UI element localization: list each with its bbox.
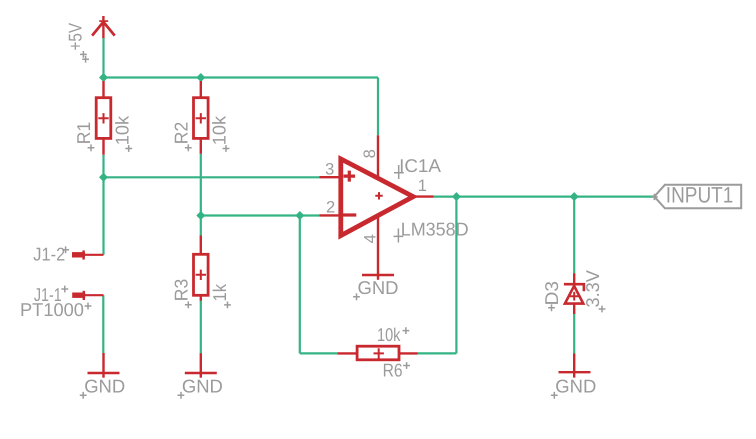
op-amp IC1A: [319, 135, 433, 275]
gnd symbol under R3: [185, 353, 217, 378]
wire pin3 row: [104, 176, 320, 178]
svg-text:10k: 10k: [209, 115, 230, 145]
svg-text:R6: R6: [383, 360, 403, 381]
wire top rail: [104, 76, 379, 78]
junction node at R2 top: [196, 73, 205, 82]
svg-text:INPUT1: INPUT1: [666, 182, 734, 207]
svg-text:10k: 10k: [111, 115, 132, 145]
wire R1 bottom: [102, 155, 104, 178]
svg-text:3.3V: 3.3V: [582, 269, 603, 307]
svg-text:GND: GND: [358, 277, 399, 298]
resistor R6: [338, 346, 418, 360]
svg-text:R2: R2: [170, 122, 191, 144]
svg-text:J1-2: J1-2: [33, 244, 65, 265]
connector pin J1-1: [72, 291, 103, 300]
junction node at feedback left: [295, 211, 304, 220]
gnd symbol under op-amp pin4: [362, 275, 394, 280]
wire +5V stem: [102, 38, 104, 78]
svg-text:GND: GND: [555, 376, 596, 397]
wire output row: [433, 196, 654, 198]
junction node at feedback right: [452, 192, 461, 201]
wire feedback left: [300, 216, 338, 354]
svg-text:PT1000: PT1000: [20, 299, 84, 320]
gnd symbol under J1-1: [88, 353, 120, 378]
svg-text:4: 4: [362, 234, 380, 243]
wire feedback right: [417, 197, 456, 354]
svg-text:8: 8: [361, 149, 379, 158]
wire pin2 row: [201, 214, 319, 216]
wire left drop to J1-2: [102, 177, 104, 255]
wire R3 bottom to GND: [200, 301, 202, 354]
svg-text:GND: GND: [182, 376, 223, 397]
wire D3 bottom: [573, 314, 575, 354]
wire D3 top: [573, 197, 575, 274]
gnd symbol under D3: [559, 354, 591, 378]
svg-text:R1: R1: [73, 122, 94, 144]
svg-text:GND: GND: [84, 376, 125, 397]
svg-text:D3: D3: [541, 281, 562, 305]
svg-text:R3: R3: [170, 279, 191, 301]
svg-text:IC1A: IC1A: [399, 155, 442, 176]
svg-text:+5V: +5V: [65, 22, 86, 50]
power symbol +5V: [92, 16, 115, 38]
resistor R1: [96, 81, 111, 155]
svg-text:1k: 1k: [209, 283, 230, 301]
svg-text:10k: 10k: [377, 324, 401, 345]
wire R2 bottom: [200, 154, 202, 216]
wire pin8 drop: [377, 78, 379, 136]
wire J1-1 to GND: [102, 295, 104, 353]
resistor R3: [194, 236, 209, 301]
resistor R2: [194, 81, 209, 154]
svg-text:LM358D: LM358D: [401, 219, 469, 240]
junction node at +5V/R1: [99, 73, 108, 82]
zener diode D3: [564, 273, 584, 314]
svg-text:1: 1: [418, 177, 427, 195]
wire R3 top: [200, 216, 202, 236]
svg-text:3: 3: [325, 160, 334, 178]
connector pin J1-2: [72, 250, 104, 259]
net flag INPUT1: [652, 185, 742, 209]
junction node at R3 top: [196, 211, 205, 220]
svg-text:2: 2: [326, 199, 335, 217]
junction node at pin3 row: [99, 173, 108, 182]
junction node at D3 tap: [570, 192, 579, 201]
